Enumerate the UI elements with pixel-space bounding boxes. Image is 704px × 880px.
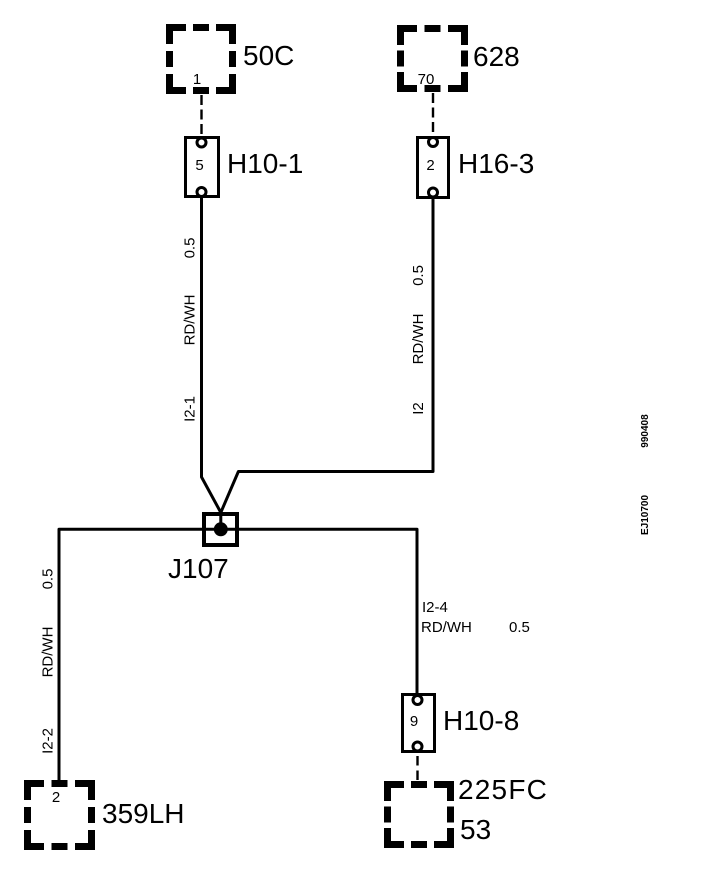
svg-text:0.5: 0.5 — [182, 238, 199, 259]
wire 50C to H10-1 (dashed) — [200, 95, 202, 136]
wire label RD/WH (bottom right) — [421, 619, 472, 636]
connector H16-3 — [418, 138, 449, 198]
svg-text:H10-1: H10-1 — [227, 148, 303, 179]
pin 2 of H16-3 — [426, 157, 434, 174]
wire label 0.5 (left top) — [182, 238, 199, 259]
wire H10-8 to 225FC (dashed) — [416, 756, 418, 781]
svg-text:0.5: 0.5 — [509, 619, 530, 636]
svg-text:0.5: 0.5 — [410, 265, 427, 286]
pin 1 of 50C — [193, 71, 201, 88]
wire label 0.5 (bottom right) — [509, 619, 530, 636]
connector box 50C — [170, 28, 233, 91]
svg-text:2: 2 — [52, 789, 60, 806]
splice J107 — [204, 514, 237, 545]
wire label I2-1 — [182, 396, 199, 422]
wire label I2-4 — [422, 599, 448, 616]
pin 2 of 359LH — [52, 789, 60, 806]
connector box 628 — [401, 29, 465, 89]
wire label 0.5 (right top) — [410, 265, 427, 286]
wire label 0.5 (bottom left) — [40, 569, 57, 590]
label 53 — [460, 814, 491, 845]
svg-text:70: 70 — [418, 71, 435, 88]
wire label I2-2 — [40, 728, 57, 754]
label H16-3 — [458, 148, 534, 179]
label H10-1 — [227, 148, 303, 179]
svg-text:628: 628 — [473, 41, 520, 72]
wire label RD/WH (right top) — [410, 314, 427, 365]
wire label RD/WH (left top) — [182, 295, 199, 346]
connector H10-1 — [186, 138, 219, 197]
svg-text:I2-4: I2-4 — [422, 599, 448, 616]
wire label RD/WH (bottom left) — [40, 627, 57, 678]
svg-text:RD/WH: RD/WH — [182, 295, 199, 346]
svg-text:I2-1: I2-1 — [182, 396, 199, 422]
svg-text:359LH: 359LH — [102, 798, 185, 829]
wire label I2 — [410, 402, 427, 415]
main wire 359LH to J107 to H10-8 — [59, 529, 417, 780]
wire 628 to H16-3 (dashed) — [432, 93, 434, 136]
margin text 990408 — [640, 414, 651, 448]
label 225FC — [458, 774, 548, 805]
wire H16-3 to splice J107 — [221, 197, 433, 513]
svg-text:EJ10700: EJ10700 — [640, 495, 651, 535]
svg-text:1: 1 — [193, 71, 201, 88]
connector box 359LH — [28, 784, 92, 847]
svg-text:H10-8: H10-8 — [443, 705, 519, 736]
label H10-8 — [443, 705, 519, 736]
margin text EJ10700 — [640, 495, 651, 535]
label 50C — [243, 40, 294, 71]
connector H10-8 — [403, 695, 435, 752]
svg-text:J107: J107 — [168, 553, 229, 584]
label 359LH — [102, 798, 185, 829]
svg-text:9: 9 — [410, 713, 418, 730]
pin 70 of 628 — [418, 71, 435, 88]
connector box 225FC — [388, 785, 451, 845]
svg-text:RD/WH: RD/WH — [421, 619, 472, 636]
wire H10-1 to splice J107 — [202, 197, 221, 525]
svg-text:RD/WH: RD/WH — [410, 314, 427, 365]
label J107 — [168, 553, 229, 584]
svg-text:53: 53 — [460, 814, 491, 845]
svg-text:RD/WH: RD/WH — [40, 627, 57, 678]
svg-text:990408: 990408 — [640, 414, 651, 448]
label 628 — [473, 41, 520, 72]
svg-text:5: 5 — [195, 157, 203, 174]
svg-text:0.5: 0.5 — [40, 569, 57, 590]
pin 9 of H10-8 — [410, 713, 418, 730]
svg-text:2: 2 — [426, 157, 434, 174]
pin 5 of H10-1 — [195, 157, 203, 174]
svg-text:H16-3: H16-3 — [458, 148, 534, 179]
svg-text:I2-2: I2-2 — [40, 728, 57, 754]
svg-text:I2: I2 — [410, 402, 427, 415]
svg-text:225FC: 225FC — [458, 774, 548, 805]
svg-text:50C: 50C — [243, 40, 294, 71]
